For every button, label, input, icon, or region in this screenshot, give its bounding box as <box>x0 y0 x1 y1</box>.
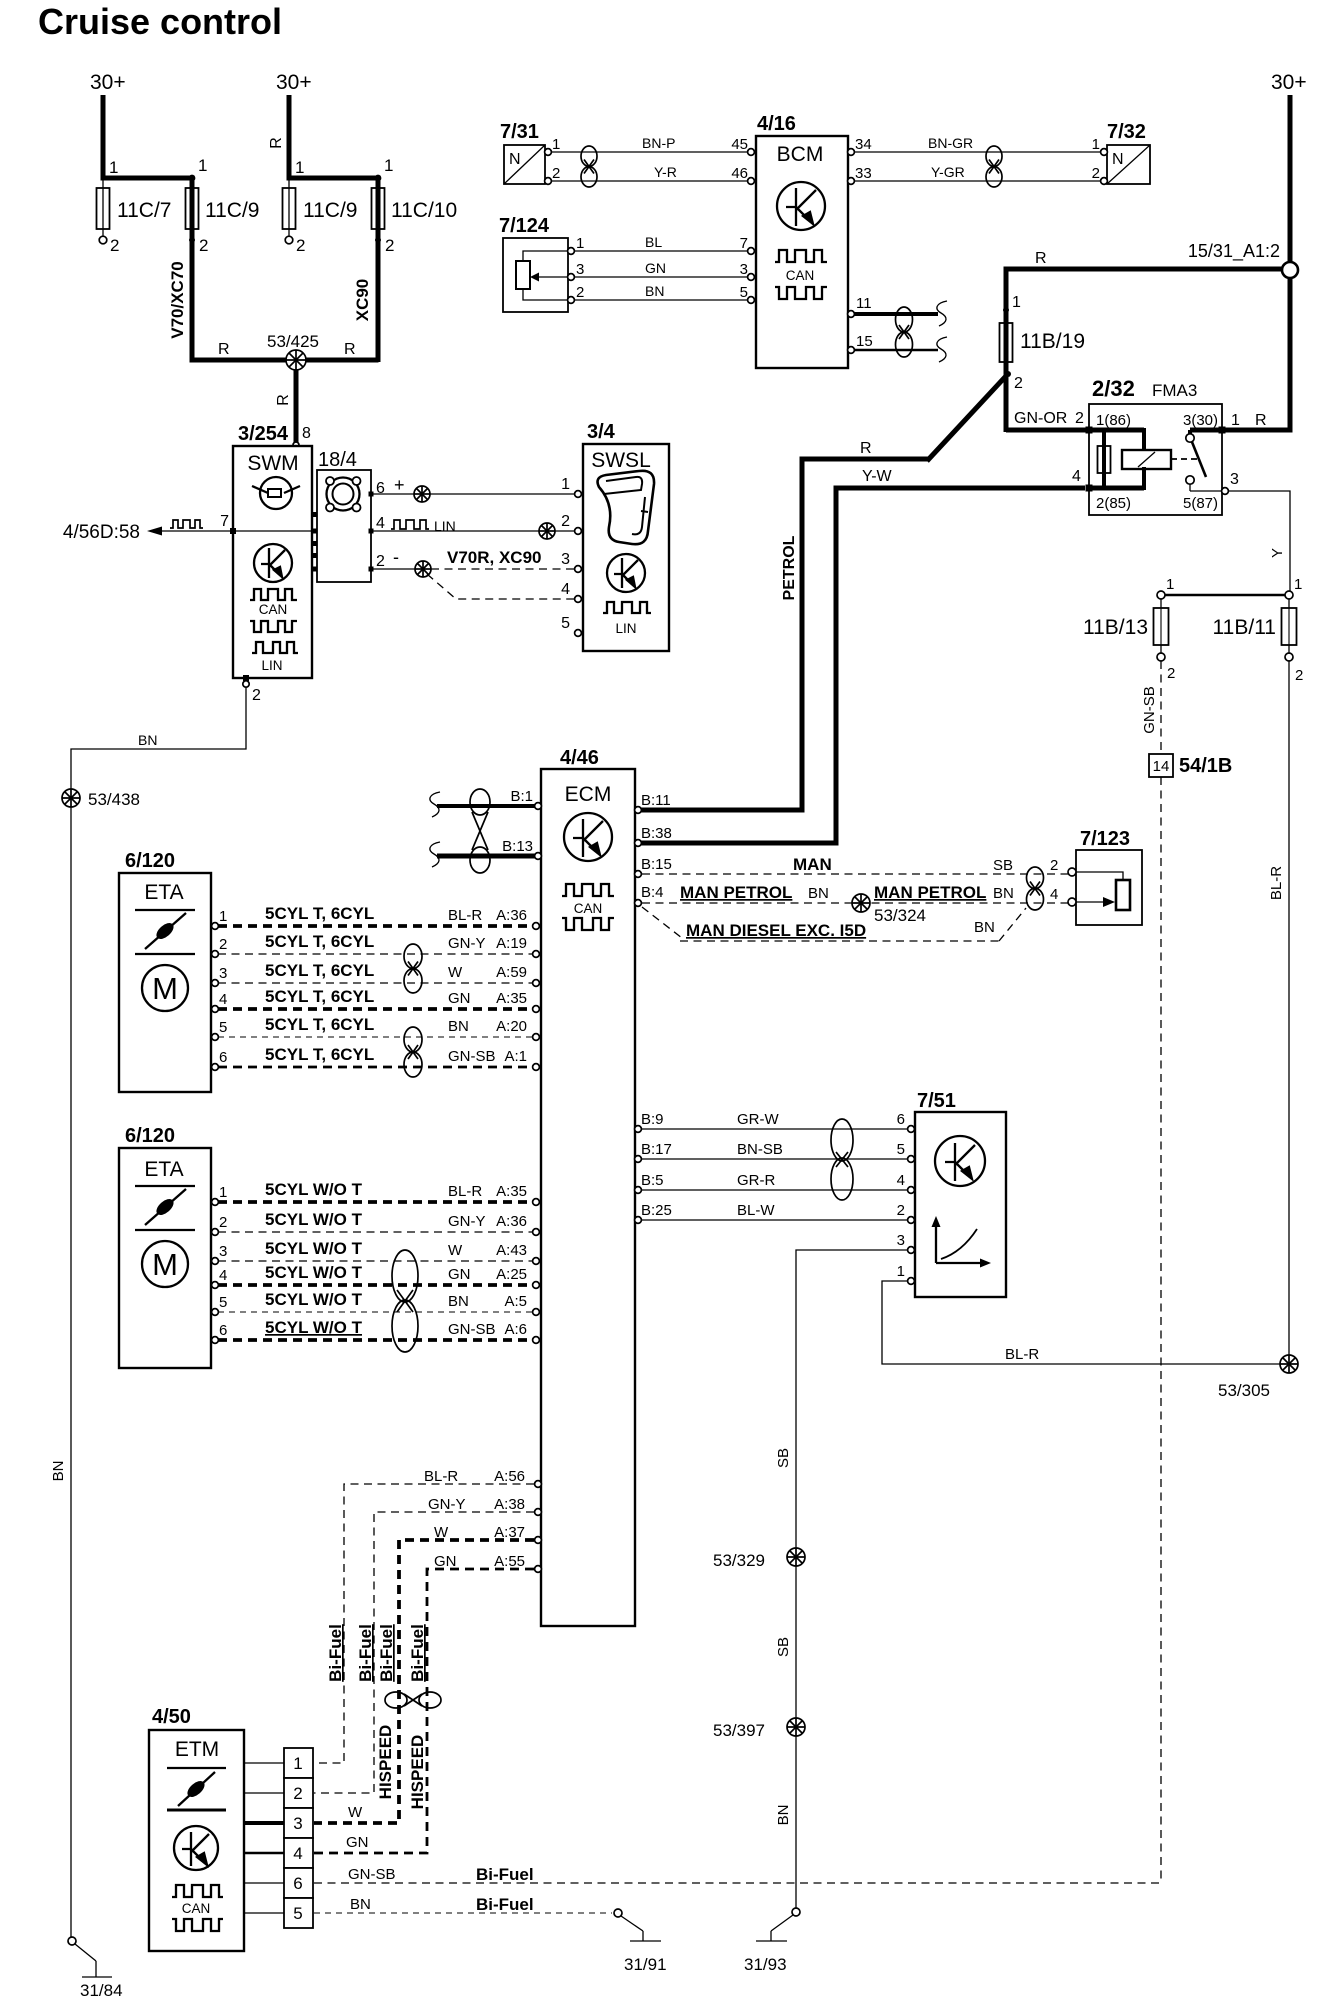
svg-text:5CYL W/O T: 5CYL W/O T <box>265 1239 363 1258</box>
svg-text:BL-R: BL-R <box>1005 1346 1039 1363</box>
wire GR-R to 7/51 pin4 <box>642 1189 908 1191</box>
fuse 11B/11 <box>1288 599 1290 653</box>
svg-text:Bi-Fuel: Bi-Fuel <box>408 1624 427 1682</box>
ECU K symbol in SWM <box>254 544 292 582</box>
svg-text:CAN: CAN <box>574 901 603 916</box>
wire 5CYL W/O T BN A:5 <box>218 1311 533 1313</box>
svg-text:45: 45 <box>731 136 748 153</box>
svg-text:GN: GN <box>448 1266 471 1283</box>
svg-text:-: - <box>393 547 399 567</box>
svg-text:LIN: LIN <box>434 518 456 534</box>
ECU K symbol in ECM <box>564 813 612 861</box>
svg-text:7: 7 <box>740 235 748 252</box>
svg-text:BCM: BCM <box>777 143 824 166</box>
wire BN-SB to 7/51 pin5 <box>642 1158 908 1160</box>
wire 5CYL W/O T GN-Y A:36 <box>218 1231 533 1233</box>
LIN symbol in SWSL <box>603 602 651 613</box>
svg-text:5: 5 <box>561 615 570 632</box>
wire 5CYL W/O T GN A:25 <box>218 1283 533 1287</box>
svg-text:2: 2 <box>561 513 570 530</box>
svg-text:30+: 30+ <box>1271 71 1307 94</box>
svg-text:BL-W: BL-W <box>737 1202 775 1219</box>
svg-text:2: 2 <box>1014 375 1023 392</box>
wire BN-P <box>551 151 750 153</box>
svg-text:4/56D:58: 4/56D:58 <box>63 522 140 543</box>
twisted pair MAN wires <box>1027 867 1044 910</box>
wire Y-W from ECM B:38 to relay pin4 <box>641 488 1085 843</box>
SWSL stalk symbol <box>598 471 655 544</box>
fuse 11B/19 <box>1000 323 1013 362</box>
svg-text:46: 46 <box>731 165 748 182</box>
wire BN Bi-Fuel dashed to ground 31/91 <box>314 1912 612 1914</box>
svg-text:2: 2 <box>1075 410 1084 427</box>
svg-text:2: 2 <box>576 284 584 301</box>
svg-text:6/120: 6/120 <box>125 850 175 872</box>
svg-text:SWM: SWM <box>247 452 298 475</box>
svg-text:4: 4 <box>1050 886 1058 903</box>
CAN symbol in SWM <box>250 589 297 600</box>
svg-text:A:59: A:59 <box>496 964 527 981</box>
svg-text:11: 11 <box>856 295 872 312</box>
svg-text:7/123: 7/123 <box>1080 828 1130 850</box>
twisted pair symbol <box>581 146 597 187</box>
node 11B/11 pin2 <box>1285 653 1293 661</box>
CAN symbol in ETM <box>172 1885 223 1897</box>
18/4 left edge pins <box>313 512 318 517</box>
svg-text:2/32: 2/32 <box>1092 376 1135 401</box>
wire 5CYL T W A:59 <box>218 982 533 984</box>
svg-text:CAN: CAN <box>786 268 815 283</box>
node 7/124 pin2 <box>568 297 575 304</box>
wire PETROL vertical down to ECM B:11 <box>800 457 805 813</box>
wire 30+ right vertical <box>1288 95 1293 262</box>
svg-text:3: 3 <box>576 261 584 278</box>
svg-text:34: 34 <box>855 136 872 153</box>
svg-text:7/124: 7/124 <box>499 215 550 237</box>
wire R diagonal from 11B/19 pin2 to PETROL run <box>927 376 1006 461</box>
wire through fuse 11C/7 <box>102 178 104 236</box>
svg-text:3: 3 <box>293 1814 302 1833</box>
wire 7/51 pin1 BL-R to 53/305 <box>882 1281 1280 1364</box>
svg-text:1: 1 <box>219 1184 227 1201</box>
svg-text:11C/9: 11C/9 <box>303 199 357 222</box>
svg-text:53/329: 53/329 <box>713 1551 765 1570</box>
wire 5CYL T BN A:20 <box>218 1036 533 1038</box>
svg-text:BL: BL <box>645 234 662 250</box>
wire MAN dashed B:15 to 7/123 pin2 <box>642 873 1068 875</box>
svg-text:BN: BN <box>645 283 664 299</box>
svg-text:MAN: MAN <box>793 855 832 874</box>
svg-text:2: 2 <box>1295 667 1303 684</box>
wire R down to SWM pin 8 <box>294 370 299 444</box>
node pin1 of 11C/9 left <box>189 175 196 182</box>
svg-text:BN: BN <box>138 732 157 748</box>
wire arrow to 4/56D:58 <box>158 530 233 532</box>
svg-text:1: 1 <box>576 235 584 252</box>
svg-text:SB: SB <box>993 857 1013 874</box>
svg-text:2: 2 <box>252 687 261 704</box>
svg-text:R: R <box>275 394 292 406</box>
svg-text:B:1: B:1 <box>510 788 533 805</box>
ground 31/91 <box>614 1909 622 1917</box>
svg-text:2: 2 <box>199 236 208 255</box>
svg-text:A:36: A:36 <box>496 907 527 924</box>
wire LIN line through SWM to SWSL pin2 <box>233 530 574 532</box>
svg-text:2: 2 <box>1092 165 1100 182</box>
svg-text:GN-SB: GN-SB <box>448 1048 496 1065</box>
wire GN <box>574 276 750 278</box>
svg-text:B:17: B:17 <box>641 1141 672 1158</box>
svg-text:A:38: A:38 <box>494 1496 525 1513</box>
svg-text:R: R <box>344 341 356 358</box>
svg-text:3/254: 3/254 <box>238 423 289 445</box>
svg-text:A:36: A:36 <box>496 1213 527 1230</box>
svg-text:MAN PETROL: MAN PETROL <box>874 883 986 902</box>
svg-text:7/31: 7/31 <box>500 121 539 143</box>
svg-text:M: M <box>152 1247 178 1282</box>
svg-text:5CYL W/O T: 5CYL W/O T <box>265 1180 363 1199</box>
twisted pair symbol pins 11-15 <box>896 307 913 357</box>
svg-text:B:15: B:15 <box>641 856 672 873</box>
wire feed2 horizontal to 11C/10 <box>287 176 379 181</box>
svg-text:2: 2 <box>219 936 227 953</box>
svg-text:5: 5 <box>219 1294 227 1311</box>
wire from BCM pin11 with break <box>854 312 938 316</box>
wire GR-W to 7/51 pin6 <box>642 1128 908 1130</box>
svg-text:BN: BN <box>448 1293 469 1310</box>
svg-text:6: 6 <box>219 1322 227 1339</box>
svg-text:11C/7: 11C/7 <box>117 199 171 222</box>
svg-text:3: 3 <box>219 965 227 982</box>
wire 5CYL W/O T GN-SB A:6 <box>218 1338 533 1342</box>
svg-text:GN-OR: GN-OR <box>1014 410 1067 427</box>
wire Y-R <box>551 180 750 182</box>
svg-text:5(87): 5(87) <box>1183 495 1218 512</box>
svg-text:A:19: A:19 <box>496 935 527 952</box>
svg-text:PETROL: PETROL <box>781 535 798 600</box>
svg-text:5CYL T, 6CYL: 5CYL T, 6CYL <box>265 1045 374 1064</box>
svg-text:4/46: 4/46 <box>560 747 599 769</box>
svg-text:5CYL T, 6CYL: 5CYL T, 6CYL <box>265 961 374 980</box>
ECU K symbol in 7/51 <box>935 1136 985 1186</box>
svg-text:SB: SB <box>775 1448 792 1468</box>
svg-text:BN: BN <box>993 885 1014 902</box>
ground 31/84 <box>68 1937 76 1945</box>
svg-text:1: 1 <box>897 1263 905 1280</box>
svg-text:5CYL T, 6CYL: 5CYL T, 6CYL <box>265 1015 374 1034</box>
svg-text:B:11: B:11 <box>641 792 671 809</box>
wire GN-SB dashed continues down <box>1160 777 1162 1883</box>
svg-text:A:35: A:35 <box>496 990 527 1007</box>
svg-text:GN: GN <box>448 990 471 1007</box>
wire Y-GR <box>850 180 1101 182</box>
svg-text:W: W <box>448 964 463 981</box>
svg-text:3: 3 <box>1230 471 1239 488</box>
node pin2 of 11C/9 left <box>189 237 195 243</box>
svg-text:1: 1 <box>1166 576 1174 593</box>
svg-text:53/397: 53/397 <box>713 1721 765 1740</box>
svg-text:1: 1 <box>561 476 570 493</box>
steering wheel symbol <box>252 477 300 509</box>
node 11B/19 pin1 <box>1003 307 1009 313</box>
svg-text:4: 4 <box>1072 468 1081 485</box>
wire linking fuse 11B/13 and 11B/11 pin1 <box>1163 594 1287 597</box>
svg-text:BL-R: BL-R <box>1268 866 1285 900</box>
svg-text:BN-P: BN-P <box>642 135 675 151</box>
svg-text:4/16: 4/16 <box>757 113 796 135</box>
svg-text:A:43: A:43 <box>496 1242 527 1259</box>
svg-text:4: 4 <box>376 515 385 532</box>
LIN square wave on arrow wire <box>170 520 203 528</box>
svg-text:GN-SB: GN-SB <box>348 1866 396 1883</box>
svg-text:W: W <box>448 1242 463 1259</box>
node pin2 of 11C/10 <box>375 237 381 243</box>
svg-text:LIN: LIN <box>261 658 282 673</box>
svg-text:2: 2 <box>219 1214 227 1231</box>
svg-text:4: 4 <box>561 581 570 598</box>
svg-text:B:13: B:13 <box>502 838 533 855</box>
ECU K symbol in ETM <box>174 1826 218 1870</box>
svg-text:R: R <box>1255 412 1267 429</box>
wire 5CYL T BL-R A:36 <box>218 924 533 928</box>
CAN symbol in BCM <box>775 250 827 262</box>
wire BL <box>574 250 750 252</box>
wire dashed branch to SWSL pin4 <box>427 574 574 599</box>
wire 5CYL T GN-Y A:19 <box>218 953 533 955</box>
wire 5CYL W/O T W A:43 <box>218 1260 533 1262</box>
node 11B/13 pin2 <box>1157 653 1165 661</box>
potentiometer inside 7/124 <box>516 251 568 300</box>
svg-text:2: 2 <box>296 236 305 255</box>
svg-text:N: N <box>1112 151 1124 168</box>
svg-text:ETM: ETM <box>175 1738 219 1761</box>
svg-text:XC90: XC90 <box>353 279 372 322</box>
svg-text:M: M <box>152 971 178 1006</box>
relay coil <box>1122 450 1171 469</box>
svg-text:31/91: 31/91 <box>624 1955 667 1974</box>
svg-text:BN: BN <box>775 1805 792 1826</box>
svg-text:LIN: LIN <box>615 621 636 636</box>
svg-text:BN-SB: BN-SB <box>737 1141 783 1158</box>
svg-text:11B/19: 11B/19 <box>1020 330 1085 353</box>
wire feed1 horizontal to 11C/9 <box>101 176 193 181</box>
svg-text:BL-R: BL-R <box>448 907 482 924</box>
graph symbol in 7/51 <box>936 1222 985 1263</box>
svg-text:BN-GR: BN-GR <box>928 135 973 151</box>
svg-text:15/31_A1:2: 15/31_A1:2 <box>1188 241 1280 262</box>
wire MAN PETROL dashed B:4 to 7/123 pin4 <box>642 902 1068 904</box>
svg-text:18/4: 18/4 <box>318 449 357 471</box>
svg-text:2(85): 2(85) <box>1096 495 1131 512</box>
wires ETM to connector <box>244 1762 284 1764</box>
svg-text:GN: GN <box>434 1553 457 1570</box>
svg-text:R: R <box>268 137 285 149</box>
throttle symbol ETM <box>167 1768 226 1810</box>
svg-text:2: 2 <box>1167 665 1175 682</box>
svg-text:MAN DIESEL EXC. I5D: MAN DIESEL EXC. I5D <box>686 921 866 940</box>
relay coil circuit <box>1086 427 1093 434</box>
wire GN-SB dashed down from 11B/13 <box>1160 661 1162 754</box>
CAN symbol in ECM <box>562 884 614 896</box>
svg-text:3: 3 <box>219 1243 227 1260</box>
wire BN <box>574 299 750 301</box>
svg-text:ETA: ETA <box>144 881 183 904</box>
svg-text:BL-R: BL-R <box>424 1468 458 1485</box>
wire R horizontal to 11B/19 <box>1004 267 1283 272</box>
pressure sensor inside 7/123 <box>1076 872 1130 910</box>
wire GN dashed to ETM pin4 <box>314 1569 534 1853</box>
svg-text:1: 1 <box>384 156 393 175</box>
node 11B/19 pin2 <box>1005 371 1011 377</box>
svg-text:B:25: B:25 <box>641 1202 672 1219</box>
LIN symbol in SWM <box>252 642 298 653</box>
svg-text:Y: Y <box>1269 548 1286 558</box>
wire 18/4 pin2 to splice <box>371 568 415 570</box>
twisted pair ETA1 5-6 <box>404 1027 422 1077</box>
svg-text:1: 1 <box>1012 294 1021 311</box>
wire BL-W to 7/51 pin2 <box>642 1219 908 1221</box>
svg-text:Y-R: Y-R <box>654 164 677 180</box>
svg-text:7: 7 <box>220 513 229 530</box>
svg-text:MAN PETROL: MAN PETROL <box>680 883 792 902</box>
svg-text:14: 14 <box>1153 758 1170 775</box>
svg-text:2: 2 <box>293 1784 302 1803</box>
svg-text:A:20: A:20 <box>496 1018 527 1035</box>
wire 18/4 pin6 to SWSL pin1 <box>371 493 574 495</box>
svg-text:HISPEED: HISPEED <box>408 1735 427 1810</box>
LIN wave on pin4 wire <box>391 520 429 529</box>
wire GN-SB Bi-Fuel dashed to 54/1B line <box>314 1882 1161 1884</box>
twisted pair on 7/51 wires <box>831 1119 853 1200</box>
svg-text:B:5: B:5 <box>641 1172 664 1189</box>
svg-text:5: 5 <box>740 284 748 301</box>
svg-text:CAN: CAN <box>259 602 288 617</box>
svg-text:A:55: A:55 <box>494 1553 525 1570</box>
svg-text:11B/11: 11B/11 <box>1213 616 1276 639</box>
svg-text:4: 4 <box>293 1844 302 1863</box>
svg-text:B:9: B:9 <box>641 1111 664 1128</box>
splice 53/438 <box>62 789 80 807</box>
wire GN-Y dashed to ETM pin2 <box>314 1512 534 1793</box>
svg-text:BL-R: BL-R <box>448 1183 482 1200</box>
svg-text:3: 3 <box>740 261 748 278</box>
svg-text:R: R <box>218 341 230 358</box>
wire 5CYL T GN-SB A:1 <box>218 1066 533 1069</box>
motor M symbol lower ETA <box>142 1241 188 1287</box>
svg-text:R: R <box>860 440 872 457</box>
svg-text:7/32: 7/32 <box>1107 121 1146 143</box>
wire through 11B/19 down <box>1004 360 1009 432</box>
relay pin 3(30) to 30+ <box>1188 430 1192 434</box>
svg-text:6: 6 <box>897 1111 905 1128</box>
svg-text:B:38: B:38 <box>641 825 672 842</box>
svg-text:2: 2 <box>376 553 385 570</box>
wire down to fuse 11B/19 <box>1004 269 1009 325</box>
svg-text:53/324: 53/324 <box>874 906 926 925</box>
svg-text:GN: GN <box>645 260 666 276</box>
svg-text:11B/13: 11B/13 <box>1083 616 1148 639</box>
svg-text:1: 1 <box>1294 576 1302 593</box>
svg-text:GR-R: GR-R <box>737 1172 775 1189</box>
connector 54/1B <box>1149 754 1173 777</box>
svg-text:HISPEED: HISPEED <box>376 1725 395 1800</box>
wire Y from relay pin3 <box>1228 491 1290 592</box>
svg-text:5: 5 <box>897 1141 905 1158</box>
splice 53/305 <box>1280 1355 1298 1373</box>
ground 31/93 <box>792 1908 800 1916</box>
splice on pin6 wire <box>414 486 430 502</box>
ECU K symbol in SWSL <box>607 554 645 592</box>
wire 30+ feed 2 vertical, R <box>287 95 292 178</box>
node 7/124 pin1 <box>568 248 575 255</box>
svg-text:33: 33 <box>855 165 872 182</box>
svg-text:5CYL W/O T: 5CYL W/O T <box>265 1290 363 1309</box>
svg-text:1: 1 <box>552 136 560 153</box>
svg-text:GN-SB: GN-SB <box>1141 686 1158 734</box>
wire W dashed thick to ETM pin3 <box>314 1540 534 1823</box>
svg-text:5: 5 <box>293 1904 302 1923</box>
svg-text:1: 1 <box>1231 412 1240 429</box>
svg-text:1: 1 <box>109 158 118 177</box>
svg-text:5: 5 <box>219 1019 227 1036</box>
svg-text:1: 1 <box>295 158 304 177</box>
svg-text:B:4: B:4 <box>641 884 664 901</box>
svg-text:GR-W: GR-W <box>737 1111 779 1128</box>
svg-text:6/120: 6/120 <box>125 1125 175 1147</box>
svg-text:ECM: ECM <box>565 783 612 806</box>
wire dashed V70R XC90 to SWSL pin3 <box>431 568 574 570</box>
svg-text:3(30): 3(30) <box>1183 412 1218 429</box>
wire 7/51 pin3 down to ground <box>796 1250 908 1908</box>
fuse 11B/13 <box>1160 599 1162 653</box>
svg-text:GN-Y: GN-Y <box>448 1213 486 1230</box>
svg-text:BN: BN <box>974 919 995 936</box>
wire through fuse 11C/9 right <box>288 178 290 236</box>
svg-text:BN: BN <box>50 1461 67 1482</box>
svg-text:6: 6 <box>293 1874 302 1893</box>
svg-text:15: 15 <box>856 333 873 350</box>
svg-text:53/438: 53/438 <box>88 790 140 809</box>
svg-text:3: 3 <box>561 551 570 568</box>
svg-text:5CYL T, 6CYL: 5CYL T, 6CYL <box>265 932 374 951</box>
node 7/124 pin3 <box>568 274 575 281</box>
twisted pair ETA1 2-3 <box>404 944 422 993</box>
svg-text:FMA3: FMA3 <box>1152 381 1197 400</box>
svg-text:4/50: 4/50 <box>152 1706 191 1728</box>
fuse 11C/9 right <box>283 188 296 229</box>
svg-text:N: N <box>509 151 521 168</box>
svg-text:BN: BN <box>808 885 829 902</box>
svg-text:A:35: A:35 <box>496 1183 527 1200</box>
wire 5CYL W/O T BL-R A:35 <box>218 1200 533 1204</box>
svg-text:4: 4 <box>897 1172 905 1189</box>
wire junction horizontal R <box>190 358 379 363</box>
svg-text:4: 4 <box>219 1267 227 1284</box>
wire through fuse 11C/10 down to junction <box>376 178 381 362</box>
wire from BCM pin15 with break <box>854 349 938 352</box>
svg-text:R: R <box>1035 250 1047 267</box>
svg-text:Bi-Fuel: Bi-Fuel <box>356 1624 375 1682</box>
svg-text:GN-Y: GN-Y <box>428 1496 466 1513</box>
svg-text:Cruise control: Cruise control <box>38 1 282 42</box>
svg-text:30+: 30+ <box>276 71 312 94</box>
big twisted pair ETA2 3-6 <box>392 1250 418 1352</box>
svg-text:A:56: A:56 <box>494 1468 525 1485</box>
svg-text:Bi-Fuel: Bi-Fuel <box>326 1624 345 1682</box>
node 7/31 pin2 <box>545 178 552 185</box>
wire R horizontal segment <box>800 457 930 462</box>
svg-text:Bi-Fuel: Bi-Fuel <box>476 1895 534 1914</box>
